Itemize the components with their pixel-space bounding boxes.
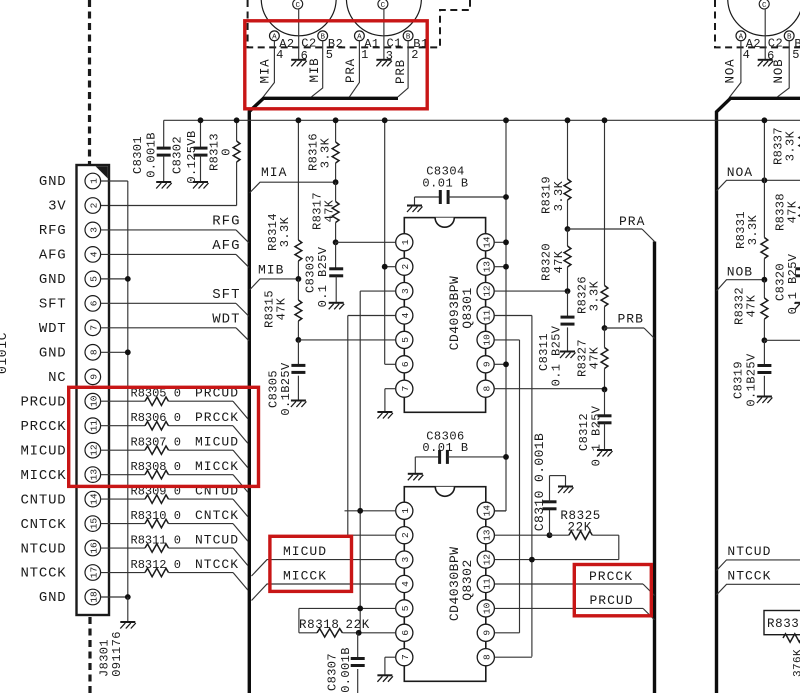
svg-text:MICUD: MICUD xyxy=(283,544,327,559)
node: NOB junction xyxy=(762,277,768,283)
red highlight box (PRCCK PRCUD labels) xyxy=(574,565,651,616)
node: C8304 junction xyxy=(503,194,509,200)
connector pin 13 circle xyxy=(85,467,101,483)
svg-text:3.3K: 3.3K xyxy=(552,180,566,211)
svg-text:GND: GND xyxy=(39,590,67,606)
ground C8305 xyxy=(291,400,306,402)
node: NOA junction xyxy=(762,177,768,183)
IC Q8301 pin 3 xyxy=(396,283,413,300)
ground below connector xyxy=(120,621,135,623)
red highlight box (MICUD MICCK labels) xyxy=(270,536,352,591)
resistor R8331 xyxy=(763,120,765,237)
svg-text:CNTUD: CNTUD xyxy=(20,492,66,508)
thick bus wire (right, NO encoder common) xyxy=(717,98,800,693)
resistor R8313 xyxy=(236,120,238,141)
svg-text:9: 9 xyxy=(482,361,493,367)
svg-text:8: 8 xyxy=(89,349,100,355)
svg-text:A: A xyxy=(357,34,362,42)
red highlight box (PRCUD PRCCK MICUD MICCK rows) xyxy=(69,387,259,486)
capacitor C8307 xyxy=(357,633,359,658)
PR encoder center pin circle xyxy=(378,0,388,9)
svg-text:R8306 0: R8306 0 xyxy=(131,411,181,425)
svg-text:MICCK: MICCK xyxy=(283,569,327,584)
resistor R8336 zigzag xyxy=(783,634,800,642)
node: pin5/col junction xyxy=(357,606,363,612)
ground C8319 xyxy=(757,396,772,398)
svg-text:4: 4 xyxy=(400,312,411,318)
svg-text:PRCCK: PRCCK xyxy=(589,569,633,584)
svg-text:NC: NC xyxy=(48,370,66,386)
node: R8315/C8305 junction xyxy=(296,337,302,343)
thick bus wire (left, encoder common) xyxy=(249,98,398,693)
svg-text:5: 5 xyxy=(400,605,411,611)
resistor R8305 (0 ohm) xyxy=(101,400,145,402)
capacitor C8311 xyxy=(567,291,569,317)
capacitor C8319 xyxy=(763,340,765,365)
connector pin 9 circle xyxy=(85,369,101,385)
svg-text:14: 14 xyxy=(482,236,493,248)
node: pin 14 junction xyxy=(503,239,509,245)
ground C8301 xyxy=(156,181,171,183)
resistor R8327 xyxy=(604,328,606,348)
connector pin 12 circle xyxy=(85,442,101,458)
svg-text:11: 11 xyxy=(482,578,493,590)
wire: MIB from encoder pin B2 xyxy=(312,41,323,97)
thick bus wire (middle, PR) xyxy=(653,242,656,693)
ground C8312 xyxy=(597,449,612,451)
svg-text:0: 0 xyxy=(219,148,233,156)
svg-text:NOB: NOB xyxy=(772,59,786,84)
capacitor C8305 xyxy=(297,340,299,365)
IC Q8301 pin 9 xyxy=(477,356,494,373)
resistor R8336 box (clipped) xyxy=(764,611,800,635)
IC Q8301 pin 2 xyxy=(396,258,413,275)
svg-text:6: 6 xyxy=(400,361,411,367)
IC Q8302 pin 1 xyxy=(396,502,413,519)
resistor R8309 (0 ohm) xyxy=(101,498,145,500)
svg-text:1: 1 xyxy=(400,239,411,245)
svg-text:0.001B: 0.001B xyxy=(339,647,353,693)
wire: Q8301 pin 12 stub xyxy=(494,290,567,292)
svg-text:PRA: PRA xyxy=(619,214,645,229)
svg-text:5: 5 xyxy=(400,337,411,343)
ground C8320 xyxy=(795,302,800,304)
resistor R8318 xyxy=(298,608,300,632)
svg-text:5: 5 xyxy=(89,276,100,282)
svg-text:C8301: C8301 xyxy=(131,136,145,174)
node: R8327/C8312/pin8 junction xyxy=(602,387,608,393)
svg-text:NTCCK: NTCCK xyxy=(195,557,239,572)
IC Q8301 pin 12 xyxy=(477,283,494,300)
svg-text:PRCUD: PRCUD xyxy=(590,593,634,608)
svg-text:0.1 B25V: 0.1 B25V xyxy=(549,325,563,386)
svg-text:0.1 B25V: 0.1 B25V xyxy=(786,253,800,314)
svg-text:NTCCK: NTCCK xyxy=(727,569,771,584)
wire: Q8301 pin 4 column xyxy=(348,315,396,317)
node: R8317/C8303/pin1 junction xyxy=(333,239,339,245)
node: 3V rail junction R8326 xyxy=(602,117,608,123)
svg-text:MIB: MIB xyxy=(258,263,284,278)
IC Q8302 pin 5 xyxy=(396,600,413,617)
wire: PR encoder center pin stem xyxy=(383,9,385,59)
svg-text:47K: 47K xyxy=(552,250,566,273)
IC Q8302 pin 2 xyxy=(396,527,413,544)
ground C8310 xyxy=(558,486,573,488)
svg-text:12: 12 xyxy=(89,444,100,456)
node: R8332/C8319 junction xyxy=(762,337,768,343)
svg-text:47K: 47K xyxy=(587,346,601,369)
svg-text:C: C xyxy=(762,2,767,10)
wire: 3V rail xyxy=(164,119,800,121)
svg-text:9: 9 xyxy=(482,630,493,636)
svg-text:B: B xyxy=(787,34,792,42)
svg-text:3.3K: 3.3K xyxy=(318,137,332,168)
svg-text:376K: 376K xyxy=(793,649,800,677)
svg-text:1: 1 xyxy=(361,48,368,62)
wire: SFT from connector xyxy=(101,302,236,304)
svg-text:11: 11 xyxy=(89,420,100,432)
svg-text:10: 10 xyxy=(89,395,100,407)
wire: NO encoder center pin stem xyxy=(764,9,766,59)
resistor R8306 (0 ohm) xyxy=(101,425,145,427)
svg-text:WDT: WDT xyxy=(212,311,240,327)
node: pin 2 junction xyxy=(382,264,388,270)
node: C8306/3V junction xyxy=(503,454,509,460)
resistor R8307 (0 ohm) xyxy=(101,449,145,451)
svg-text:4: 4 xyxy=(276,48,283,62)
rotary encoder body circle (MI) xyxy=(261,0,336,36)
svg-text:R8308 0: R8308 0 xyxy=(131,460,181,474)
svg-text:AFG: AFG xyxy=(39,248,67,264)
connector pin 6 circle xyxy=(85,296,101,312)
wire: 3V to connector pin 2 xyxy=(101,205,237,207)
IC Q8301 pin 13 xyxy=(477,258,494,275)
svg-text:10: 10 xyxy=(482,602,493,614)
svg-text:SFT: SFT xyxy=(212,287,240,303)
connector pin 15 circle xyxy=(85,516,101,532)
IC Q8302 pin 3 xyxy=(396,551,413,568)
svg-text:2: 2 xyxy=(400,532,411,538)
svg-text:R8312 0: R8312 0 xyxy=(131,558,181,572)
IC Q8301 pin 8 xyxy=(477,380,494,397)
capacitor C8310 xyxy=(549,509,551,535)
connector pin 7 circle xyxy=(85,320,101,336)
ground Q8301 pin 7 xyxy=(377,411,392,413)
svg-text:3: 3 xyxy=(89,227,100,233)
wire: Q8302 pin 13 stub xyxy=(494,534,549,536)
capacitor C8312 xyxy=(604,389,606,415)
wire: Q8301 pin 14 stub xyxy=(494,241,506,243)
svg-text:0.01 B: 0.01 B xyxy=(422,177,468,191)
capacitor C8301 xyxy=(163,120,165,147)
svg-text:12: 12 xyxy=(482,285,493,297)
svg-text:NOB: NOB xyxy=(727,265,753,280)
svg-text:NTCCK: NTCCK xyxy=(20,566,66,582)
svg-text:CNTCK: CNTCK xyxy=(195,508,239,523)
svg-text:7: 7 xyxy=(400,654,411,660)
node: GND junction pin 18 xyxy=(125,594,131,600)
svg-text:NTCUD: NTCUD xyxy=(195,533,239,548)
svg-text:Q8302: Q8302 xyxy=(460,559,475,601)
connector pin 17 circle xyxy=(85,565,101,581)
svg-text:18: 18 xyxy=(89,591,100,603)
ground under NO encoder center pin xyxy=(758,59,773,61)
svg-text:C8307: C8307 xyxy=(325,653,339,691)
ground C8311 xyxy=(560,351,575,353)
svg-text:PRA: PRA xyxy=(344,58,358,83)
IC Q8302 pin 12 xyxy=(477,551,494,568)
encoder enclosure dashed box (right) xyxy=(715,0,800,47)
node: GND junction pin 8 xyxy=(125,349,131,355)
ground C8302 xyxy=(193,181,208,183)
svg-text:3.3K: 3.3K xyxy=(587,280,601,311)
ground under PR encoder center pin xyxy=(376,59,391,61)
connector pin 8 circle xyxy=(85,345,101,361)
wire: GND bus drop to ground xyxy=(127,597,129,622)
IC Q8302 body (CD4030BPW) xyxy=(404,487,486,682)
svg-text:MIA: MIA xyxy=(259,59,273,84)
connector pin 2 circle xyxy=(85,198,101,214)
svg-text:10: 10 xyxy=(482,334,493,346)
wire: NTCCK net xyxy=(717,584,800,595)
svg-text:R8310 0: R8310 0 xyxy=(131,509,181,523)
svg-text:R8307 0: R8307 0 xyxy=(131,436,181,450)
op-amp U1 body (IC Q8301 CD4093BPW) xyxy=(404,218,485,413)
MI encoder pin B circle xyxy=(318,31,328,41)
wire: NOA net xyxy=(717,180,800,191)
svg-text:9: 9 xyxy=(89,374,100,380)
wire: pin 5 GND stub xyxy=(101,278,128,280)
ground Q8302 pin 7 xyxy=(377,674,392,676)
svg-text:5: 5 xyxy=(326,48,333,62)
wire: Q8301 pin 7 to ground xyxy=(385,388,396,390)
connector pin 10 circle xyxy=(85,393,101,409)
resistor R8332 xyxy=(763,280,765,298)
svg-text:0.1 B25V: 0.1 B25V xyxy=(589,405,603,466)
wire: MICCK net xyxy=(252,584,396,601)
connector pin 1 circle xyxy=(85,173,101,189)
svg-text:3.3K: 3.3K xyxy=(783,130,797,161)
svg-text:C8319: C8319 xyxy=(731,361,745,399)
node: pin6/R8318 junction xyxy=(356,630,362,636)
rotary encoder body circle (PR) xyxy=(346,0,421,36)
wire: MICUD net xyxy=(252,560,396,576)
svg-text:MIB: MIB xyxy=(308,58,322,83)
svg-text:0.125VB: 0.125VB xyxy=(185,130,199,183)
IC Q8301 notch xyxy=(435,218,454,228)
svg-text:4: 4 xyxy=(89,251,100,257)
node: 3V rail junction R8331 xyxy=(762,117,768,123)
svg-text:PRCCK: PRCCK xyxy=(195,410,239,425)
wire: NTCUD net xyxy=(717,560,800,571)
wire: left dashed boundary line xyxy=(88,0,91,164)
svg-text:16: 16 xyxy=(89,542,100,554)
node: rail junction C8302 xyxy=(198,117,204,123)
svg-text:12: 12 xyxy=(482,554,493,566)
NO encoder pin B circle xyxy=(784,31,794,41)
node: GND junction pin 5 xyxy=(125,276,131,282)
svg-text:0.001B: 0.001B xyxy=(144,132,158,178)
wire: PRB net xyxy=(605,327,645,329)
IC Q8302 pin 7 xyxy=(396,649,413,666)
wire: Q8302 pin 8 stub xyxy=(494,656,532,658)
svg-text:C8302: C8302 xyxy=(170,136,184,174)
svg-text:3.3K: 3.3K xyxy=(278,216,292,247)
capacitor C8320 (clipped at edge) xyxy=(795,267,800,270)
svg-text:MICUD: MICUD xyxy=(195,435,239,450)
svg-text:Q8301: Q8301 xyxy=(460,287,475,329)
svg-text:3.3K: 3.3K xyxy=(746,214,760,245)
IC Q8302 pin 13 xyxy=(477,527,494,544)
IC Q8301 pin 7 xyxy=(396,380,413,397)
svg-text:8: 8 xyxy=(482,654,493,660)
resistor R8308 (0 ohm) xyxy=(101,474,145,476)
wire: PRA from encoder pin A1 xyxy=(349,41,360,98)
IC Q8301 pin 10 xyxy=(477,331,494,348)
connector J8301 body xyxy=(77,165,110,615)
IC Q8302 pin 14 xyxy=(477,502,494,519)
svg-text:MICCK: MICCK xyxy=(20,468,66,484)
wire: Q8302 pin 9 stub xyxy=(494,632,519,634)
svg-text:A: A xyxy=(739,34,744,42)
svg-text:B: B xyxy=(406,34,411,42)
resistor R8326 xyxy=(604,120,606,285)
IC Q8302 pin 11 xyxy=(477,575,494,592)
wire: PRCUD net xyxy=(494,607,643,609)
ground under MI encoder center pin xyxy=(291,59,306,61)
node: PRB junction xyxy=(602,325,608,331)
node: PRA junction xyxy=(565,226,571,232)
svg-text:15: 15 xyxy=(89,518,100,530)
svg-text:4: 4 xyxy=(400,581,411,587)
svg-text:R8311 0: R8311 0 xyxy=(131,534,181,548)
resistor R8325 xyxy=(550,534,569,536)
node: pin1/col junction xyxy=(357,508,363,514)
resistor R8312 (0 ohm) xyxy=(101,572,145,574)
resistor R8311 (0 ohm) xyxy=(101,547,145,549)
node: 3V rail junction col506 xyxy=(503,117,509,123)
connector pin 5 circle xyxy=(85,271,101,287)
svg-text:8: 8 xyxy=(482,386,493,392)
wire: WDT from connector xyxy=(101,327,236,329)
IC Q8302 notch xyxy=(435,487,454,497)
svg-text:6: 6 xyxy=(89,300,100,306)
svg-text:WDT: WDT xyxy=(39,321,67,337)
ground C8304 xyxy=(407,205,422,207)
svg-text:7: 7 xyxy=(400,386,411,392)
ground C8306 xyxy=(408,473,423,475)
node: 3V rail junction col xyxy=(382,117,388,123)
svg-text:6: 6 xyxy=(400,630,411,636)
svg-text:RFG: RFG xyxy=(39,223,67,239)
wire: PRB from encoder pin B1 xyxy=(398,41,408,97)
svg-text:11: 11 xyxy=(482,310,493,322)
svg-text:GND: GND xyxy=(39,174,67,190)
node: MIA junction xyxy=(333,179,339,185)
wire: MIA from encoder pin A2 xyxy=(263,41,275,98)
svg-text:17: 17 xyxy=(89,567,100,578)
wire: MI encoder center pin stem xyxy=(298,9,300,59)
IC Q8302 pin 8 xyxy=(477,649,494,666)
node: MIB junction xyxy=(296,276,302,282)
wire: Q8301 pin 10 column xyxy=(494,339,519,341)
svg-text:091176: 091176 xyxy=(110,631,124,677)
svg-text:47K: 47K xyxy=(744,294,758,317)
wire: Q8302 pin 1 stub xyxy=(345,510,396,512)
svg-text:3: 3 xyxy=(400,556,411,562)
svg-text:MIA: MIA xyxy=(261,165,287,180)
connector pin 14 circle xyxy=(85,491,101,507)
wire: pin 8 GND stub xyxy=(101,351,128,353)
svg-text:22K: 22K xyxy=(568,521,592,535)
NO encoder pin A circle xyxy=(736,31,746,41)
svg-text:SFT: SFT xyxy=(39,297,67,313)
svg-text:PRB: PRB xyxy=(618,312,644,327)
encoder enclosure dashed box (left pair) xyxy=(248,0,470,47)
wire: 3V column to pins 2 and 6 xyxy=(384,120,386,364)
capacitor C8306 xyxy=(415,456,439,458)
resistor R8310 (0 ohm) xyxy=(101,523,145,525)
svg-text:14: 14 xyxy=(89,493,100,505)
IC Q8301 pin 11 xyxy=(477,307,494,324)
svg-text:13: 13 xyxy=(482,529,493,541)
svg-text:CNTCK: CNTCK xyxy=(20,517,66,533)
wire: NOB net xyxy=(717,280,765,291)
svg-text:13: 13 xyxy=(89,469,100,481)
svg-text:0.01 B: 0.01 B xyxy=(422,441,468,455)
svg-text:MICCK: MICCK xyxy=(195,459,239,474)
IC Q8301 pin 6 xyxy=(396,356,413,373)
wire: Q8302 pin 7 to ground xyxy=(385,656,396,658)
svg-text:GND: GND xyxy=(39,272,67,288)
capacitor C8302 xyxy=(200,120,202,147)
wire: Q8301 pin 9 stub xyxy=(494,363,506,365)
svg-text:NOA: NOA xyxy=(724,59,738,84)
svg-text:PRCUD: PRCUD xyxy=(20,394,66,410)
svg-text:AFG: AFG xyxy=(212,238,240,254)
wire: NOA from encoder pin A xyxy=(729,41,741,98)
IC Q8301 pin 5 xyxy=(396,331,413,348)
resistor R8319 xyxy=(567,120,569,179)
connector pin 4 circle xyxy=(85,247,101,263)
node: pin12/col junction xyxy=(529,557,535,563)
svg-text:0.1 B25V: 0.1 B25V xyxy=(316,246,330,307)
wire: Q8301 pin 8 stub xyxy=(494,388,604,390)
svg-text:22K: 22K xyxy=(346,618,370,632)
resistor R8317 xyxy=(335,182,337,201)
svg-text:PRCCK: PRCCK xyxy=(20,419,66,435)
IC Q8302 pin 10 xyxy=(477,600,494,617)
IC Q8302 pin 9 xyxy=(477,624,494,641)
wire: MIB net xyxy=(250,279,299,290)
node: 3V rail junction R8319 xyxy=(565,117,571,123)
wire: AFG from connector xyxy=(101,253,236,255)
node: pin 13 junction xyxy=(503,264,509,270)
svg-text:1: 1 xyxy=(89,178,100,184)
wire: MIA net xyxy=(250,182,336,193)
svg-text:2: 2 xyxy=(89,202,100,208)
wire: pin 18 GND stub xyxy=(101,596,128,598)
MI encoder center pin circle xyxy=(293,0,303,9)
svg-text:3V: 3V xyxy=(48,199,66,215)
PR encoder pin B circle xyxy=(403,31,413,41)
IC Q8302 pin 6 xyxy=(396,624,413,641)
svg-text:PRB: PRB xyxy=(394,59,408,84)
IC Q8301 pin 4 xyxy=(396,307,413,324)
wire: GND bus from pin 1 xyxy=(101,180,128,182)
svg-text:3: 3 xyxy=(400,288,411,294)
wire: NOB from encoder pin B xyxy=(778,41,790,97)
